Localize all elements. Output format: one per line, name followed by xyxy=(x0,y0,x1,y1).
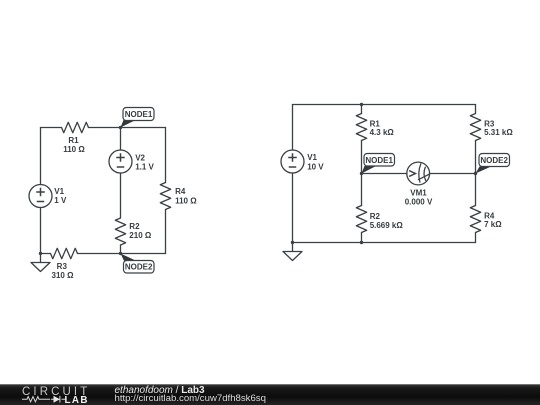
logo wire-resistor-diode row xyxy=(22,396,66,403)
svg-text:4.3 kΩ: 4.3 kΩ xyxy=(370,128,395,137)
svg-text:310 Ω: 310 Ω xyxy=(52,271,75,280)
svg-text:NODE2: NODE2 xyxy=(125,263,153,272)
wire left vertical lower xyxy=(40,208,42,254)
svg-text:NODE1: NODE1 xyxy=(365,156,393,165)
svg-text:http://circuitlab.com/cuw7dfh8: http://circuitlab.com/cuw7dfh8sk6sq xyxy=(115,393,266,404)
svg-text:210 Ω: 210 Ω xyxy=(129,231,152,240)
resistor R1 xyxy=(356,114,366,141)
svg-text:R3: R3 xyxy=(57,262,68,271)
svg-text:5.669 kΩ: 5.669 kΩ xyxy=(370,221,404,230)
wire middle center xyxy=(361,141,363,206)
node NODE2 flag xyxy=(121,254,136,261)
svg-text:110 Ω: 110 Ω xyxy=(63,145,85,154)
ground xyxy=(40,254,42,263)
wire middle bottom stub xyxy=(361,233,363,243)
wire middle lower xyxy=(120,245,122,254)
svg-text:V2: V2 xyxy=(135,153,145,162)
voltage source V1 xyxy=(281,150,304,173)
wire right vertical upper xyxy=(165,128,167,183)
node ground junction xyxy=(291,241,294,244)
svg-text:5.31 kΩ: 5.31 kΩ xyxy=(484,128,513,137)
resistor R4 xyxy=(470,206,480,233)
wire middle upper xyxy=(120,128,122,151)
svg-text:NODE1: NODE1 xyxy=(125,110,153,119)
voltage source V2 xyxy=(109,150,132,173)
svg-text:10 V: 10 V xyxy=(307,162,324,171)
svg-text:V1: V1 xyxy=(307,153,317,162)
wire bottom xyxy=(293,242,476,244)
resistor R4 xyxy=(160,183,170,210)
node B junction bottom xyxy=(119,252,122,255)
svg-text:R2: R2 xyxy=(370,212,381,221)
node junction mid-left xyxy=(360,172,363,175)
wire right vertical top stub xyxy=(475,105,477,114)
svg-text:V1: V1 xyxy=(54,187,64,196)
svg-text:R4: R4 xyxy=(175,187,186,196)
ground xyxy=(292,243,294,252)
resistor R2 xyxy=(356,206,366,233)
node NODE1 flag xyxy=(362,166,376,174)
svg-text:R1: R1 xyxy=(68,136,79,145)
wire left vertical upper xyxy=(292,105,294,151)
svg-text:VM1: VM1 xyxy=(410,189,427,198)
voltmeter VM1 xyxy=(407,162,430,185)
resistor R2 xyxy=(115,218,125,245)
wire top-left segment xyxy=(41,127,62,129)
wire bottom segment to right corner xyxy=(78,253,166,255)
wire right vertical bottom stub xyxy=(475,233,477,243)
wire right vertical lower xyxy=(165,210,167,254)
node junction mid-right xyxy=(474,172,477,175)
node NODE2 flag xyxy=(476,167,491,174)
svg-text:R2: R2 xyxy=(129,222,140,231)
resistor R3 xyxy=(51,248,78,258)
node A junction top xyxy=(119,126,122,129)
wire top xyxy=(293,104,476,106)
wire top segment to right corner xyxy=(89,127,166,129)
wire left vertical lower xyxy=(292,173,294,243)
svg-text:1 V: 1 V xyxy=(54,196,67,205)
wire right vertical center xyxy=(475,141,477,206)
svg-text:LAB: LAB xyxy=(65,395,89,405)
wire bottom-left segment xyxy=(41,253,51,255)
node junction top xyxy=(360,103,363,106)
resistor R3 xyxy=(470,114,480,141)
node NODE1 flag xyxy=(121,120,135,128)
wire bridge left xyxy=(362,173,408,175)
voltage source V1 xyxy=(29,185,52,208)
resistor R1 xyxy=(62,122,89,132)
svg-text:110 Ω: 110 Ω xyxy=(175,197,197,206)
svg-text:1.1 V: 1.1 V xyxy=(135,162,154,171)
node junction bottom xyxy=(360,241,363,244)
svg-text:7 kΩ: 7 kΩ xyxy=(484,220,502,229)
wire middle between V2 and R2 xyxy=(120,173,122,218)
wire bridge right xyxy=(429,173,475,175)
wire middle top stub xyxy=(361,105,363,114)
node ground junction xyxy=(39,252,42,255)
wire left vertical upper xyxy=(40,128,42,185)
svg-text:0.000 V: 0.000 V xyxy=(405,197,433,206)
svg-text:NODE2: NODE2 xyxy=(480,156,508,165)
